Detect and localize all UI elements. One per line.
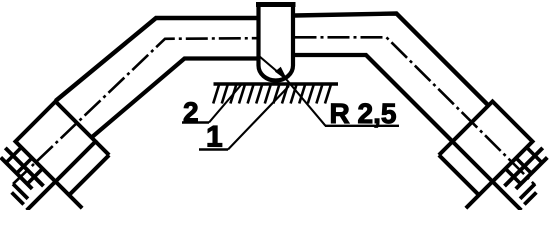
side plate outer edge: [439, 155, 479, 195]
bottom side extension: [56, 182, 83, 209]
radius leader line outer segment: [286, 79, 326, 126]
end tab line: [524, 192, 536, 204]
right clamp assembly: [426, 100, 550, 237]
radius arrowhead: [276, 68, 287, 80]
radius leader line inner segment: [259, 56, 286, 79]
punch U1 body: [259, 2, 294, 81]
side plate top edge extension: [439, 142, 453, 156]
lamination cross line 1: [527, 147, 542, 162]
specimen left branch bottom edge: [92, 59, 258, 138]
lamination cross line 3: [505, 169, 520, 184]
centerline left (dash-dot): [13, 38, 257, 184]
end tab line: [12, 192, 24, 204]
svg-text:1: 1: [206, 121, 223, 154]
lamination cross line 2: [17, 158, 32, 173]
lamination cross line 1: [6, 147, 21, 162]
lamination line B: [516, 157, 547, 188]
clamp square: [452, 101, 532, 181]
bottom side extension: [466, 182, 493, 209]
end cap line: [13, 184, 28, 199]
specimen right branch bottom edge: [295, 55, 453, 142]
leader line for label 1: [228, 86, 289, 150]
centerline right (dash-dot): [295, 37, 536, 185]
end cap line: [520, 184, 535, 199]
underline label 2: [182, 121, 209, 123]
punch top cap: [256, 2, 296, 7]
lamination cross line 3: [27, 169, 42, 184]
left clamp assembly: [0, 100, 122, 237]
lamination line A: [505, 148, 543, 186]
side plate top edge extension: [96, 142, 110, 156]
lamination cross line 2: [516, 158, 531, 173]
clamp square: [15, 101, 95, 181]
outer side extension: [493, 182, 522, 211]
side plate outer edge: [69, 155, 109, 195]
hatched support surface line: [214, 82, 339, 85]
lamination line A: [5, 148, 43, 186]
leader line for label 2: [209, 85, 241, 123]
specimen right branch top edge: [295, 14, 489, 106]
lamination line B: [1, 157, 32, 188]
hatch strokes: [213, 85, 331, 104]
svg-text:2: 2: [183, 97, 199, 128]
specimen left branch top edge: [56, 18, 258, 101]
underline label 1: [199, 148, 228, 150]
svg-text:R 2,5: R 2,5: [329, 98, 396, 129]
outer side extension: [27, 182, 56, 211]
underline label R 2,5: [325, 125, 399, 127]
